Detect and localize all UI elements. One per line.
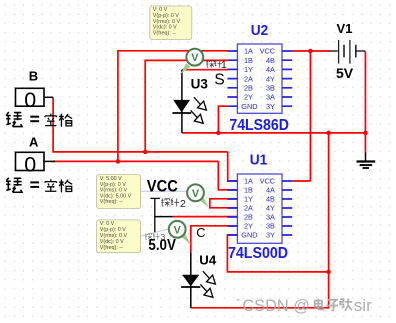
svg-text:1Y: 1Y xyxy=(244,195,253,204)
svg-text:U1: U1 xyxy=(250,152,267,168)
svg-text:V1: V1 xyxy=(337,21,353,36)
svg-text:2A: 2A xyxy=(244,204,253,213)
svg-text:2Y: 2Y xyxy=(244,222,253,231)
svg-text:74LS00D: 74LS00D xyxy=(228,245,288,262)
svg-text:U2: U2 xyxy=(251,23,268,39)
svg-text:VCC: VCC xyxy=(147,178,178,196)
svg-text:V(freq): --: V(freq): -- xyxy=(100,199,123,205)
svg-text:2Y: 2Y xyxy=(244,93,253,102)
svg-text:4Y: 4Y xyxy=(266,204,275,213)
svg-text:4B: 4B xyxy=(266,195,275,204)
svg-text:U3: U3 xyxy=(191,77,209,92)
svg-text:4A: 4A xyxy=(266,186,275,195)
svg-text:S: S xyxy=(214,72,224,89)
svg-text:A: A xyxy=(29,135,39,150)
svg-text:3B: 3B xyxy=(266,222,275,231)
svg-text:3B: 3B xyxy=(266,84,275,93)
svg-text:2: 2 xyxy=(180,198,186,210)
svg-text:GND: GND xyxy=(241,231,257,240)
svg-text:0: 0 xyxy=(24,88,36,112)
svg-text:74LS86D: 74LS86D xyxy=(229,117,289,134)
svg-text:2A: 2A xyxy=(244,74,253,83)
svg-text:5V: 5V xyxy=(336,65,354,81)
svg-text:1: 1 xyxy=(221,59,227,71)
svg-text:GND: GND xyxy=(241,102,257,111)
svg-text:1A: 1A xyxy=(244,177,253,186)
svg-text:B: B xyxy=(29,69,38,84)
svg-text:U4: U4 xyxy=(199,252,217,267)
svg-text:3Y: 3Y xyxy=(266,231,275,240)
svg-text:C: C xyxy=(196,225,205,240)
svg-text:V(freq): --: V(freq): -- xyxy=(100,245,123,251)
svg-text:VCC: VCC xyxy=(260,177,275,186)
svg-text:1B: 1B xyxy=(244,186,253,195)
svg-text:3A: 3A xyxy=(266,213,275,222)
svg-text:CSDN @: CSDN @ xyxy=(242,296,309,315)
svg-text:3: 3 xyxy=(161,232,166,242)
svg-text:V: V xyxy=(191,52,199,64)
svg-text:V: V xyxy=(174,224,182,236)
svg-text:4Y: 4Y xyxy=(266,74,275,83)
svg-text:4B: 4B xyxy=(266,56,275,65)
svg-text:2B: 2B xyxy=(244,213,253,222)
svg-text:2B: 2B xyxy=(244,84,253,93)
svg-text:1B: 1B xyxy=(244,56,253,65)
svg-text:1A: 1A xyxy=(244,47,253,56)
svg-text:V: V xyxy=(192,188,200,200)
svg-text:sir: sir xyxy=(354,296,372,315)
svg-text:3Y: 3Y xyxy=(266,102,275,111)
svg-text:1Y: 1Y xyxy=(244,65,253,74)
svg-text:3A: 3A xyxy=(266,93,275,102)
svg-text:0: 0 xyxy=(24,152,36,176)
svg-text:4A: 4A xyxy=(266,65,275,74)
svg-text:V(freq): --: V(freq): -- xyxy=(153,30,176,36)
svg-text:VCC: VCC xyxy=(260,47,275,56)
